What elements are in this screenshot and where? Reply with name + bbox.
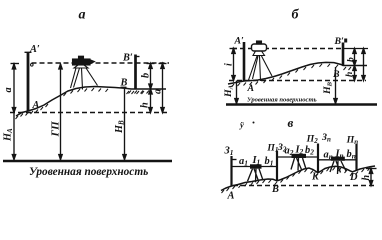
staff A (rod at point A) xyxy=(27,52,30,111)
level body station n xyxy=(331,157,345,161)
tripod legs station n xyxy=(330,161,346,174)
dashed reference line (panel v) xyxy=(233,185,377,187)
svg-text:В: В xyxy=(271,184,279,195)
dimension h bracket (panel v) xyxy=(366,169,377,186)
svg-text:D: D xyxy=(349,172,358,183)
svg-text:I1: I1 xyxy=(252,155,261,167)
svg-text:а: а xyxy=(3,87,14,92)
dimension HB line (panel b) xyxy=(334,67,337,104)
terrain profile (panel a) xyxy=(16,87,166,117)
tick flag at staff B top (panel b) xyxy=(344,39,347,43)
svg-text:В′: В′ xyxy=(334,36,345,47)
svg-text:А: А xyxy=(247,83,255,94)
svg-text:А: А xyxy=(32,100,40,111)
svg-text:б: б xyxy=(292,7,300,22)
svg-text:Уровенная поверхность: Уровенная поверхность xyxy=(29,166,148,178)
terrain hatching (panel v) xyxy=(222,167,371,193)
level body station 1 xyxy=(250,164,262,168)
terrain profile (panel v) xyxy=(221,166,375,191)
svg-text:ГП: ГП xyxy=(50,121,62,138)
level on tripod (panel a) xyxy=(71,56,98,89)
svg-text:K: K xyxy=(311,172,320,183)
instrument horizon dashed (panel b) xyxy=(232,48,342,50)
svg-text:Уровенная поверхность: Уровенная поверхность xyxy=(247,96,317,103)
reading tick a1 on staff1 xyxy=(233,159,237,161)
tick flag at staff B top xyxy=(137,56,140,58)
level on tripod (panel b) xyxy=(249,41,273,81)
sight line station n xyxy=(318,159,357,161)
lower dashed line at A level (panel b) xyxy=(229,80,366,82)
terrain hatching (panel b) xyxy=(232,64,352,87)
staff B (panel b) xyxy=(342,43,345,66)
dimension GP line (instrument horizon height) xyxy=(59,64,62,160)
svg-text:h: h xyxy=(361,175,372,181)
svg-text:а: а xyxy=(79,8,86,23)
wire: tick at left end of horizon xyxy=(11,63,20,65)
sight line station 1 xyxy=(232,166,278,168)
ground level surface (panel b) xyxy=(226,103,377,105)
svg-text:i: i xyxy=(224,63,235,66)
svg-text:аn: аn xyxy=(324,150,333,162)
svg-text:А′: А′ xyxy=(234,35,245,46)
svg-text:b: b xyxy=(346,57,357,62)
dimension HA line (panel b) xyxy=(235,81,238,104)
staff 1 (Z1 at A) xyxy=(230,156,232,186)
staff 2 (P1/Z2 at B) xyxy=(276,151,278,182)
svg-text:а: а xyxy=(153,89,164,94)
staff 3 (P2/Zn at K) xyxy=(317,144,319,173)
staff A (panel b) xyxy=(243,42,246,81)
staff 4 (Pn at D) xyxy=(355,144,357,170)
dimension line b/h (panel a, x=150.5) xyxy=(147,64,155,113)
svg-text:в: в xyxy=(288,115,294,130)
tripod legs station 1 xyxy=(248,169,264,183)
svg-text:а2: а2 xyxy=(285,146,294,158)
svg-text:h: h xyxy=(344,72,355,77)
svg-text:А′: А′ xyxy=(29,44,40,55)
node: staff A horizon mark xyxy=(31,64,34,67)
level body station 2 xyxy=(292,154,307,158)
svg-text:А: А xyxy=(227,191,235,202)
stray dot xyxy=(253,122,255,124)
svg-text:h: h xyxy=(140,102,151,108)
terrain profile (panel b) xyxy=(228,62,367,84)
instrument horizon dashed line (panel a) xyxy=(32,62,170,64)
sight line station 2 xyxy=(277,156,318,158)
svg-text:b1: b1 xyxy=(265,156,274,168)
svg-text:ӱ: ӱ xyxy=(239,120,244,130)
svg-text:In: In xyxy=(335,149,344,161)
dimension HB line (panel a) xyxy=(121,87,127,159)
dimension i line (panel b) xyxy=(232,49,235,81)
terrain hatching (panel a) xyxy=(16,88,150,119)
svg-text:bn: bn xyxy=(347,149,356,161)
dimension line a-full (panel a, x=162.5) xyxy=(159,64,167,113)
tripod legs station 2 xyxy=(291,158,306,171)
svg-text:В′: В′ xyxy=(122,53,133,64)
hatching at B base (panel a) xyxy=(127,91,145,94)
svg-text:b2: b2 xyxy=(305,145,314,157)
ground: level surface line (panel a) xyxy=(3,160,172,162)
svg-text:I2: I2 xyxy=(295,145,304,157)
lower dashed line at A level (panel a) xyxy=(10,112,168,114)
tick at left end (panel b horizon) xyxy=(230,48,238,50)
staff B (panel a) xyxy=(134,55,137,89)
svg-text:b: b xyxy=(141,73,152,78)
dimension b/h line (panel b) xyxy=(353,49,356,81)
solid horizon tick right of staff B (panel b) xyxy=(344,48,368,50)
svg-text:З1: З1 xyxy=(224,146,234,158)
dimension full line (panel b right) xyxy=(362,49,365,81)
dimension a + HA line (x=14) xyxy=(12,64,15,160)
svg-text:а1: а1 xyxy=(239,156,248,168)
